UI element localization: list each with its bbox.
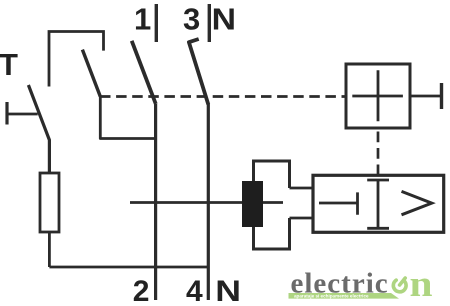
svg-text:N: N [215,274,241,306]
test wire to neutral [49,266,208,269]
svg-text:n: n [410,264,433,305]
secondary stub upper [290,187,314,190]
pole 2 terminal bar [208,4,211,42]
svg-text:electric: electric [291,268,389,300]
pole 2 conductor [207,104,210,300]
svg-text:4: 4 [186,275,203,306]
svg-text:N: N [212,2,236,36]
mechanical link dashed vertical [377,132,380,176]
svg-text:3: 3 [183,2,200,37]
wire resistor bottom [48,232,51,267]
test button box [346,64,410,128]
auxiliary contact wire to pole 1 [100,97,155,139]
trip relay box [313,175,444,232]
CT primary conductor [130,201,283,204]
relay input symbol [319,192,358,214]
pole 2 blade with hook [189,39,208,104]
CT core (filled) [242,181,263,227]
terminal stub wire [7,113,38,116]
resistor R [40,173,59,232]
handle link wire [410,95,440,98]
relay threshold symbol [402,191,432,214]
test switch blade [28,85,49,173]
svg-text:1: 1 [134,2,151,37]
pole 1 blade [132,41,156,104]
linkage bracket [49,32,104,87]
handle bar [440,83,443,109]
CT secondary winding box [254,161,290,249]
svg-text:T: T [0,47,18,82]
mechanical link dashed horizontal [100,95,345,98]
relay armature [367,180,389,228]
svg-text:2: 2 [133,275,150,306]
secondary stub lower [290,217,314,220]
logo power symbol o [393,278,406,292]
test button cross [352,70,403,121]
pole 1 terminal bar [155,4,158,42]
pole 1 conductor [154,104,157,300]
logo ribbon [289,293,400,299]
terminal stub bar [5,102,8,125]
auxiliary contact blade [82,50,100,97]
